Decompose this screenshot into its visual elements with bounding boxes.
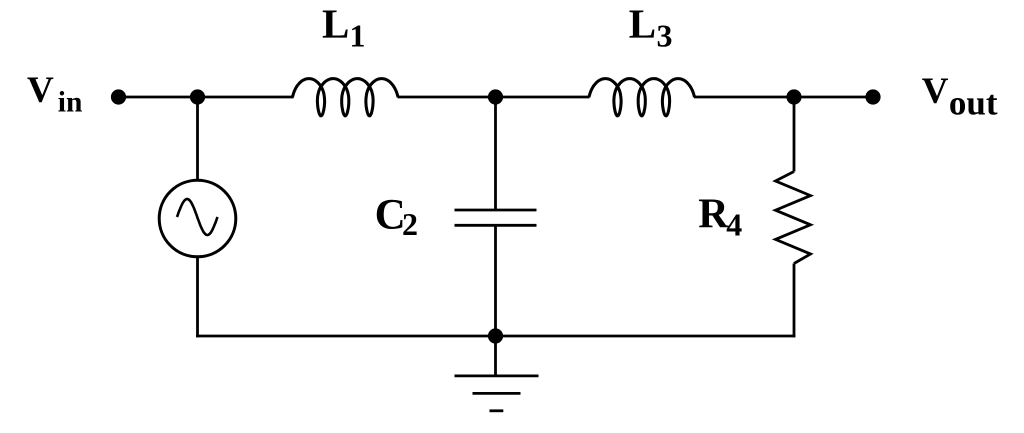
svg-text:L: L <box>322 1 349 47</box>
svg-text:R: R <box>698 191 729 237</box>
svg-text:1: 1 <box>350 17 366 53</box>
svg-text:out: out <box>949 84 998 123</box>
svg-text:2: 2 <box>402 206 418 242</box>
svg-text:V: V <box>922 71 949 112</box>
svg-text:4: 4 <box>726 207 742 243</box>
svg-text:3: 3 <box>657 17 673 53</box>
svg-text:L: L <box>629 1 656 47</box>
svg-text:C: C <box>375 192 406 239</box>
svg-text:in: in <box>58 86 83 118</box>
svg-text:V: V <box>27 70 54 111</box>
